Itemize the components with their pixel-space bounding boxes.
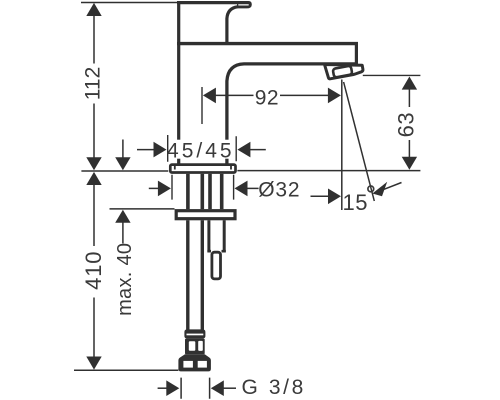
dimension 112	[82, 3, 105, 170]
base plate	[170, 165, 235, 173]
svg-text:63: 63	[394, 112, 419, 137]
dimension G 3/8	[158, 376, 306, 399]
svg-text:112: 112	[82, 67, 105, 100]
deck top line right part	[237, 170, 420, 172]
lever neck	[227, 7, 238, 44]
faucet body top	[177, 42, 358, 45]
faucet lever top	[177, 1, 248, 4]
dimension Ø32	[149, 175, 301, 202]
dimension 92	[202, 87, 341, 125]
hose nut section	[185, 339, 205, 355]
threaded rod	[207, 220, 225, 279]
degree symbol	[368, 186, 374, 192]
angle leader arrow on stream line	[372, 182, 401, 197]
bottom reference line	[74, 369, 178, 371]
svg-text:410: 410	[81, 251, 106, 290]
svg-text:92: 92	[255, 87, 279, 110]
faucet body left edge	[177, 1, 180, 163]
vertical reference line at spout outlet	[341, 80, 343, 211]
faucet lever tip	[237, 1, 252, 8]
extension line top (lever level)	[81, 2, 177, 4]
shank lines between plate and nut	[188, 174, 222, 209]
deck top line	[81, 170, 168, 172]
hose collar	[184, 329, 205, 338]
angle arrow on vertical line	[311, 189, 342, 205]
supply pipe	[188, 220, 203, 330]
svg-text:15: 15	[343, 190, 368, 215]
15 degree stream line	[344, 82, 375, 201]
svg-text:Ø32: Ø32	[258, 179, 300, 202]
spout right edge	[355, 43, 358, 65]
mounting nut	[176, 211, 235, 219]
spout underside and inner curve	[227, 64, 358, 164]
dimension 410	[81, 172, 106, 370]
aerator level extension line	[363, 74, 421, 76]
lever tip highlight slit	[239, 4, 248, 6]
G3/8 flange	[178, 354, 211, 371]
aerator	[325, 65, 363, 79]
dimension 63	[394, 77, 419, 170]
svg-text:45/45: 45/45	[167, 139, 235, 162]
dimension 45/45	[137, 135, 266, 162]
deck bottom line	[110, 208, 175, 210]
dimension max. 40	[114, 140, 136, 316]
svg-text:max. 40: max. 40	[114, 243, 136, 316]
svg-text:G 3/8: G 3/8	[242, 376, 306, 399]
